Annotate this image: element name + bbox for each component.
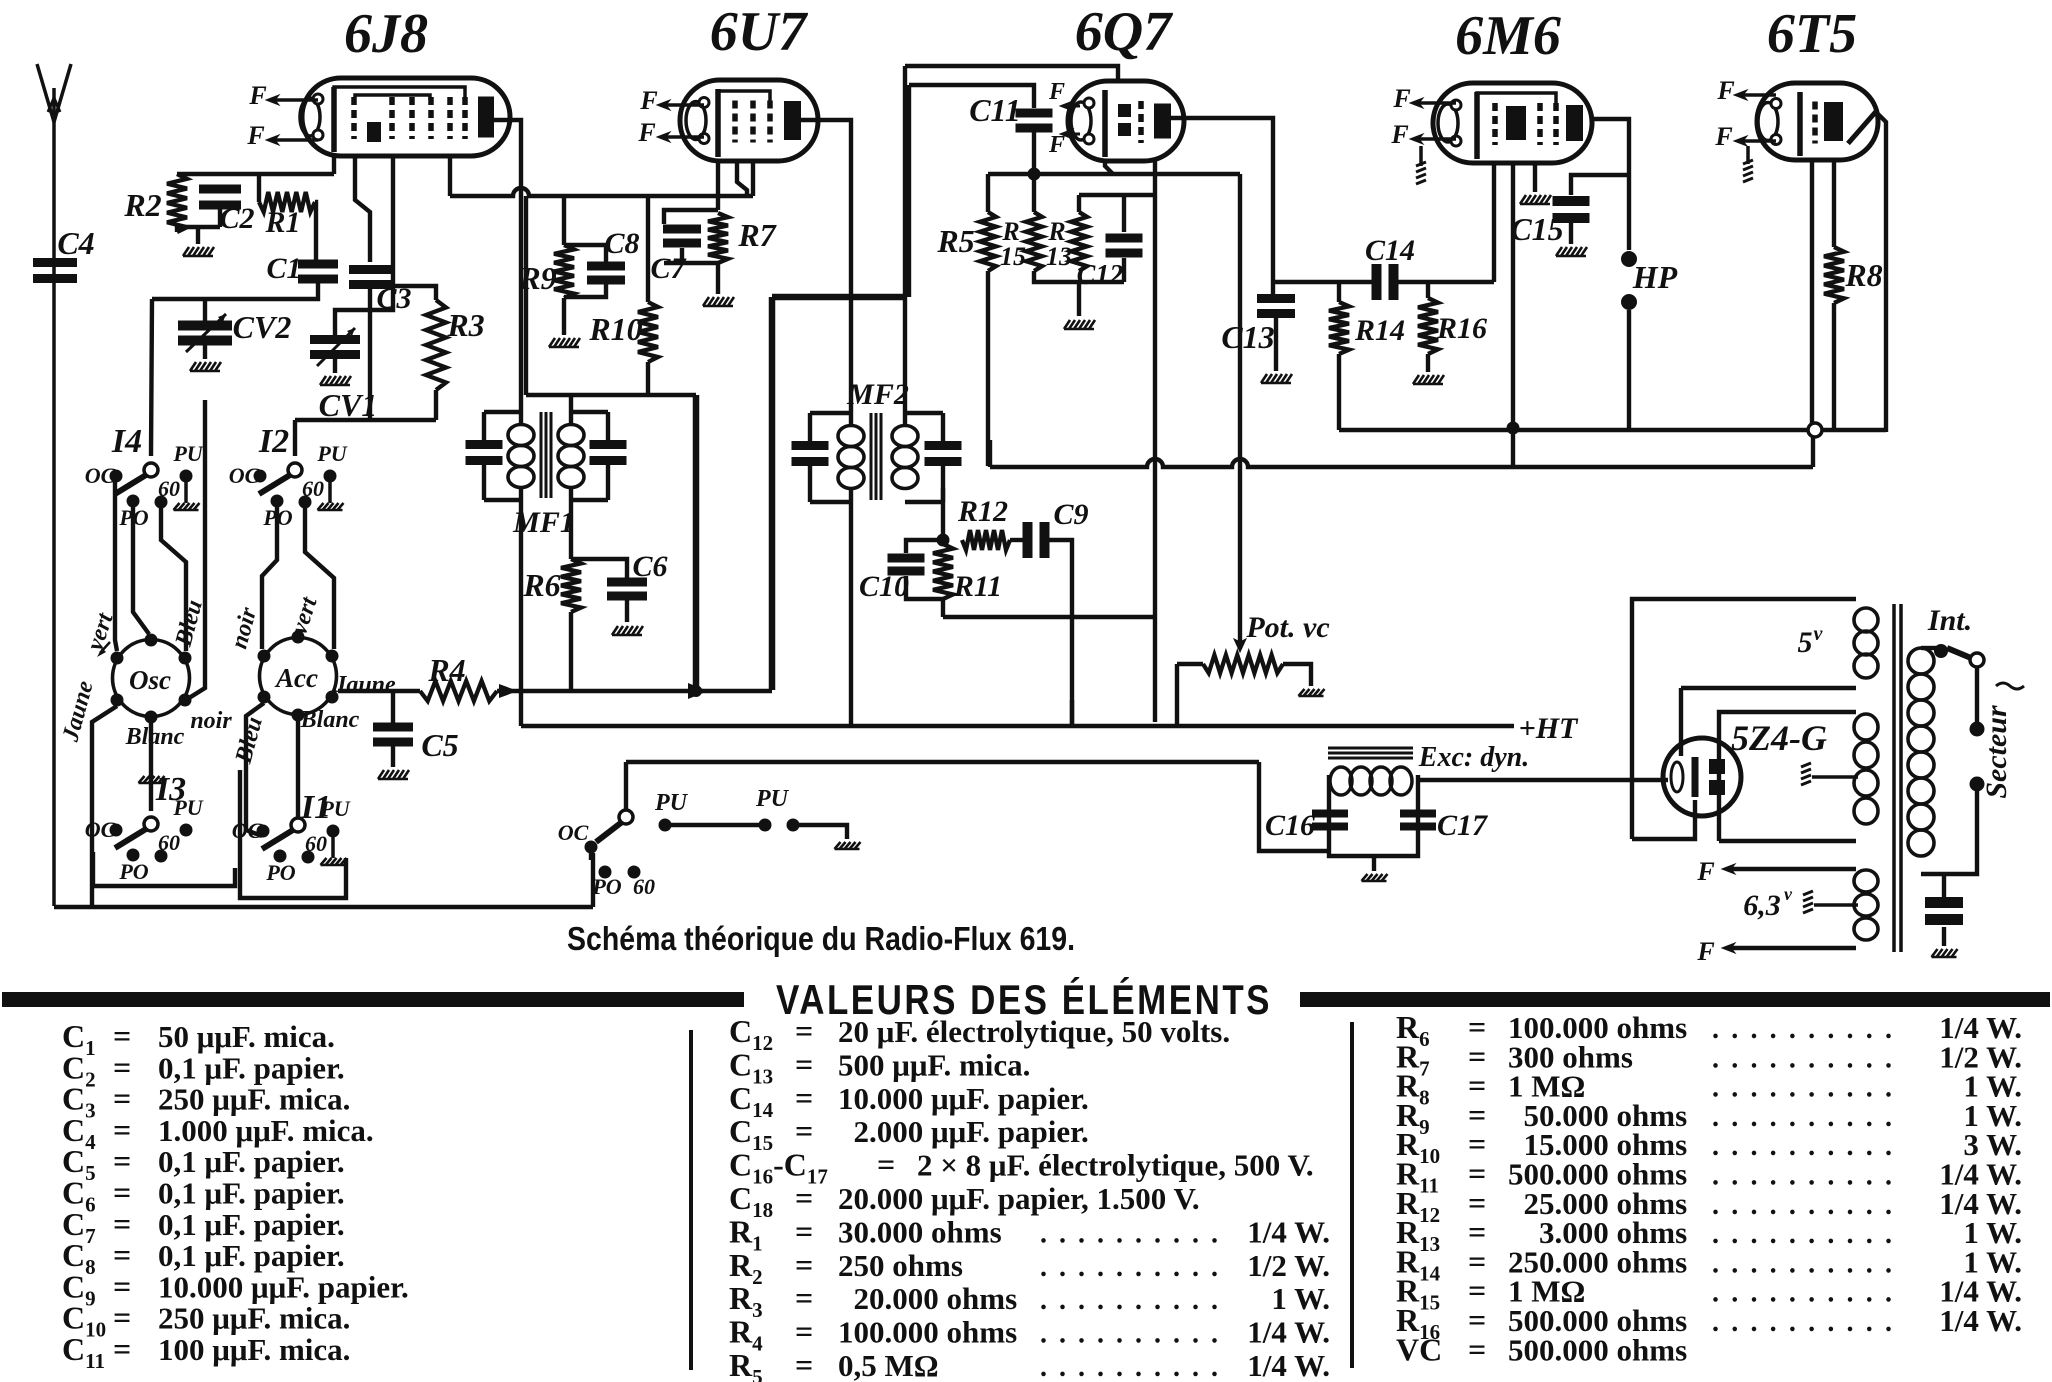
svg-text:6U7: 6U7 [710,1,808,63]
svg-text:0,1 μF. papier.: 0,1 μF. papier. [158,1238,345,1273]
ground below CV1 [320,376,351,385]
speaker terminal HP bottom [1621,294,1637,310]
power transformer 6.3V winding [1696,857,1878,966]
heater arrows 6Q7 [1048,79,1080,158]
svg-text:6M6: 6M6 [1455,5,1561,67]
wire MF1 secondary bottom [569,488,573,559]
svg-text:R6: R6 [522,567,560,603]
wire grid bus right drop [1238,174,1242,648]
table header title [776,976,1272,1023]
svg-text:Blanc: Blanc [125,724,185,750]
wire I1 box [240,770,346,898]
capacitor C4 [33,225,95,283]
wire MF2 secondary bottom [941,488,945,534]
heater arrows 6M6 [1390,84,1456,149]
wire 6Q7 grid bus [988,172,1240,176]
table header bar right [1300,992,2050,1007]
svg-text:F: F [1390,120,1408,149]
svg-text:I3: I3 [155,771,186,808]
ground below R13 [1064,320,1095,329]
svg-text:OC: OC [558,820,589,845]
node bus E junction [1808,423,1822,437]
tube 6U7 [680,80,818,161]
svg-text:PO: PO [118,859,148,884]
wire bus F [990,459,1813,467]
svg-text:Int.: Int. [1927,604,1972,637]
svg-text:=: = [795,1046,813,1082]
wire det output [1273,280,1373,284]
svg-text:2.000 μμF. papier.: 2.000 μμF. papier. [838,1114,1089,1149]
resistor R13 [1046,195,1087,271]
wire pot left drop [1175,664,1179,726]
third PU contact [787,819,800,832]
wire 6J8 screen pin [448,156,452,196]
wire MF1 secondary top [569,395,573,424]
svg-text:5: 5 [1798,626,1813,659]
wire bus G to bus H [519,691,523,726]
switch I4 [85,423,204,530]
wire R1 left [257,174,261,202]
svg-text:10.000 μμF. papier.: 10.000 μμF. papier. [838,1081,1089,1116]
svg-text:v: v [1784,884,1793,904]
node screen bus [1507,422,1520,435]
ground mains [1932,949,1958,957]
svg-text:I1: I1 [300,789,331,826]
wire grid4 6J8 to R2 [332,156,336,174]
IF transformer MF1 [466,412,627,539]
label noir Acc [226,604,262,651]
wire mains cap stem [1942,874,1946,898]
svg-text:=: = [877,1147,895,1183]
variable capacitor CV1 [310,328,377,423]
svg-text:Jaune: Jaune [333,672,396,698]
svg-text:5Z4-G: 5Z4-G [1731,718,1827,758]
switch I1 [232,789,351,885]
wire I3 feed [149,722,153,811]
svg-text:6J8: 6J8 [344,3,428,65]
svg-text:Pot. vc: Pot. vc [1245,611,1329,644]
wire 6U7 grid pin [751,161,755,196]
svg-text:0,1 μF. papier.: 0,1 μF. papier. [158,1144,345,1179]
svg-text:Exc: dyn.: Exc: dyn. [1418,742,1529,773]
svg-text:R11: R11 [953,570,1002,603]
svg-text:1/4 W.: 1/4 W. [1247,1348,1330,1382]
svg-text:F: F [1048,132,1065,158]
resistor R3 [426,300,485,390]
choke Exc dyn laminations [1328,748,1413,758]
svg-text:0,1 μF. papier.: 0,1 μF. papier. [158,1050,345,1085]
ground below C13 [1261,374,1292,383]
wire bus E to bus F [1811,437,1815,467]
capacitor C13 [1221,294,1295,355]
svg-text:R9: R9 [518,260,556,296]
wire grid box [295,418,436,422]
resistor R14 [1329,282,1405,354]
resistor R1 [259,192,315,239]
tube label 6J8 [344,3,428,65]
svg-text:=: = [795,1314,813,1350]
wire MF2 bottom to bus H already [1070,700,1074,726]
svg-text:PU: PU [316,441,347,466]
6.3V center tap ground [1803,891,1858,913]
svg-text:6Q7: 6Q7 [1075,1,1173,63]
ground below R16 [1413,375,1444,384]
resistor R16 [1418,282,1487,354]
label Jaune Acc [333,672,396,698]
wire filter ground stem [1372,856,1376,871]
table header bar left [2,992,744,1007]
svg-text:1/4 W.: 1/4 W. [1247,1214,1330,1249]
capacitor C6 [607,550,668,601]
wire AVC horizontal [772,294,905,301]
heater arrows 6T5 [1714,76,1776,151]
wire I1 feed [296,710,300,818]
svg-text:13: 13 [1046,242,1072,271]
wire 6T5 right side [1878,114,1886,432]
capacitor C18 mains [1925,897,1963,925]
wire R13 R15 bottoms [1034,271,1124,282]
svg-text:I4: I4 [111,423,142,460]
svg-text:=: = [795,1113,813,1149]
title caption [567,920,1075,957]
capacitor C5 [373,691,459,763]
svg-text:15: 15 [1000,242,1026,271]
wire diode plate [1170,118,1273,299]
svg-text:=: = [795,1180,813,1216]
ground below pot [1299,689,1325,696]
label vert Acc [286,593,323,638]
svg-text:R1: R1 [264,206,300,239]
svg-text:F: F [1696,937,1714,966]
switch I3 [85,771,204,884]
resistor R9 [518,196,574,298]
svg-text:Blanc: Blanc [300,707,360,733]
wire R2 C2 bottom [177,227,220,232]
power transformer primary [1908,648,1936,856]
svg-text:=: = [795,1213,813,1249]
svg-text:F: F [1714,122,1732,151]
resistor R2 [123,174,187,232]
svg-text:C9: C9 [1053,498,1088,531]
wire C15 ground stem [1569,221,1573,244]
wire screen feed drop [693,395,700,691]
svg-text:PO: PO [591,874,621,899]
svg-text:=: = [795,1347,813,1382]
variable capacitor CV2 [178,309,291,352]
wire 6U7 cathode pin [716,161,720,210]
wire screen bus B [450,188,753,196]
svg-text:F: F [1048,79,1065,105]
node R4 junction [499,684,518,698]
svg-text:250 ohms: 250 ohms [838,1248,963,1283]
rotary switch Acc [258,631,339,722]
svg-text:+HT: +HT [1519,712,1579,745]
svg-text:F: F [248,81,266,110]
svg-text:I2: I2 [258,423,289,460]
label +HT [1519,712,1579,745]
svg-text:100.000 ohms: 100.000 ohms [838,1315,1017,1350]
wire C9 loop drop [1070,617,1074,726]
svg-text:R14: R14 [1354,314,1405,347]
table divider 1 [689,1030,693,1370]
wire 6Q7 top grid entry [905,66,1118,81]
svg-text:C7: C7 [650,252,686,285]
svg-text:500.000 ohms: 500.000 ohms [1508,1332,1687,1367]
wire 6J8 anode [494,120,521,424]
capacitor C8 [564,227,640,297]
wire R6 bottom [569,612,573,690]
capacitor C12 [1077,195,1143,291]
wire 6M6 grid pin [1492,163,1496,282]
svg-text:C5: C5 [421,727,458,763]
wire C1 node to I4 [151,299,152,456]
resistor R8 [1824,160,1883,432]
svg-text:20 μF. électrolytique, 50 volt: 20 μF. électrolytique, 50 volts. [838,1014,1230,1049]
capacitor C16 [1265,809,1348,842]
svg-text:0,5 MΩ: 0,5 MΩ [838,1348,939,1382]
choke Exc dyn coil [1330,742,1529,795]
resistor R15 [1000,174,1042,271]
resistor R11 [933,544,1002,617]
wire bus F left riser [988,440,992,467]
svg-text:OC: OC [85,463,116,488]
svg-text:C12: C12 [1077,260,1124,291]
label noir Osc [190,708,232,734]
label Blanc Osc [125,724,185,750]
svg-text:1 W.: 1 W. [1271,1281,1330,1316]
wire C1 bottom [152,281,318,299]
svg-text:VC: VC [1396,1331,1442,1367]
wire MF1 primary bottom [519,488,523,692]
wire Acc Jaune out [338,689,420,693]
svg-text:PU: PU [654,790,689,816]
svg-text:R8: R8 [1844,257,1882,293]
wire choke to rectifier [1418,778,1668,782]
wire exc feed [1259,762,1329,851]
wire R3 bottom [434,390,438,420]
heater arrows 6U7 [637,86,704,147]
node pot arrow [1234,639,1246,652]
svg-text:500 μμF. mica.: 500 μμF. mica. [838,1047,1030,1082]
wire Acc noir drop [246,703,264,836]
wire Osc jaune down [92,706,117,907]
svg-text:F: F [639,86,657,115]
wire 6J8 grid2 pin [335,156,393,337]
values table column 3 [1396,1009,2022,1367]
tube label 6T5 [1767,3,1857,65]
tube 6M6 [1433,83,1592,163]
wire PU jumper [671,823,759,827]
wire bus G [497,689,772,693]
label Jaune wire [0,0,1,1]
wire C11 feed drop [907,85,911,297]
svg-text:MF2: MF2 [846,378,909,411]
wire bias ground stem [1077,282,1081,316]
svg-text:C11: C11 [969,92,1021,128]
wire I4 60 to Osc [161,508,186,651]
wire triode plate node [1079,193,1155,197]
wire 6U7 pin 3 [737,161,747,196]
wire C13 ground stem [1274,318,1278,371]
wire R16 ground stem [1426,354,1430,372]
ground 6M6 cathode [1520,195,1551,204]
potentiometer Pot vc [1177,611,1330,686]
wire C9 right [1047,540,1072,617]
wire R11 C9 bottom [943,615,1156,619]
wire 6M6 anode [1592,119,1629,250]
svg-text:=: = [795,1247,813,1283]
svg-text:R7: R7 [737,217,777,253]
wire mains lower [1921,791,1977,874]
switch Int [1927,604,1984,667]
svg-text:R3: R3 [446,307,484,343]
wire R6 to C6 [571,559,627,580]
svg-text:250 μμF. mica.: 250 μμF. mica. [158,1301,350,1336]
wire R1 to C1 [315,202,316,261]
resistor R10 [588,196,658,395]
svg-text:Osc: Osc [129,665,171,695]
wire 6U7 anode [801,120,851,424]
wire C15 feed [1571,175,1629,195]
capacitor C9 [1023,498,1089,558]
label Secteur [1980,683,2024,799]
svg-text:C2: C2 [219,202,254,235]
tube 6Q7 [1068,81,1184,161]
label Jaune Osc [57,678,98,745]
wire MF2 secondary top [903,66,907,424]
svg-text:Schéma théorique du Radio-Flu: Schéma théorique du Radio-Flux 619. [567,920,1075,957]
switch OC-PO-60-PU bottom [558,786,790,899]
tube 6J8 [300,78,510,156]
svg-text:250 μμF. mica.: 250 μμF. mica. [158,1082,350,1117]
wire 6Q7 cathode pin [1105,159,1113,174]
resistor R4 [420,652,497,701]
switch I2 [229,423,348,530]
ground below CV2 [190,362,221,371]
rectifier 5Z4-G [1663,718,1827,816]
label HP [1632,259,1678,295]
node grid bus [1028,168,1041,181]
wire Bleu drop [189,400,205,698]
capacitor C15 [1510,196,1589,247]
svg-text:100 μμF. mica.: 100 μμF. mica. [158,1332,350,1367]
ground below R9 [549,338,580,347]
wire PU to ground [799,825,847,839]
svg-text:C10: C10 [859,570,909,603]
svg-text:Acc: Acc [274,663,318,693]
transformer core [1894,604,1901,952]
wire bus E [1339,428,1886,432]
svg-text:C17: C17 [1437,809,1488,842]
svg-text:R16: R16 [1436,312,1487,345]
svg-text:PU: PU [172,441,203,466]
wire antenna bottom bus [54,905,593,909]
label vert Osc [82,609,119,657]
ground below C5 [378,770,409,779]
svg-text:R4: R4 [427,652,465,688]
svg-text:C6: C6 [632,550,667,583]
svg-text:30.000 ohms: 30.000 ohms [838,1214,1002,1249]
svg-text:HP: HP [1632,259,1678,295]
capacitor C7 [650,210,718,285]
svg-text:F: F [1392,84,1410,113]
svg-text:60: 60 [305,831,327,856]
capacitor C3 [349,265,412,315]
svg-text:1/4 W.: 1/4 W. [1939,1303,2022,1338]
wire bus PU [626,760,1259,764]
svg-text:60: 60 [158,830,180,855]
ground below filter [1362,874,1388,881]
svg-text:1/4 W.: 1/4 W. [1247,1315,1330,1350]
svg-text:F: F [246,121,264,150]
svg-text:R2: R2 [123,187,161,223]
capacitor C17 [1400,809,1488,842]
svg-text:=: = [113,1331,131,1367]
capacitor C1 [266,252,338,285]
svg-text:noir: noir [190,708,232,734]
svg-text:6,3: 6,3 [1743,889,1781,922]
wire 6J8 cathode pin [355,156,370,262]
svg-text:C15: C15 [1510,211,1563,247]
tube 6T5 [1757,83,1878,160]
label Bleu Osc [170,597,207,650]
svg-text:60: 60 [158,476,180,501]
svg-text:OC: OC [85,817,116,842]
wire bus PU drop [624,762,628,816]
svg-text:1.000 μμF. mica.: 1.000 μμF. mica. [158,1113,374,1148]
heater arrows 6J8 [246,81,318,150]
6J8 inner wire [355,95,430,100]
ground below R7 [703,297,734,306]
svg-text:2 × 8 μF. électrolytique, 500: 2 × 8 μF. électrolytique, 500 V. [917,1148,1314,1183]
mains terminal lower [1970,777,1985,792]
wire 6Q7 plate drop [1153,159,1157,722]
svg-text:CV2: CV2 [233,309,292,345]
svg-text:1/2 W.: 1/2 W. [1247,1248,1330,1283]
wire I2 pivot up [293,420,297,456]
ground below C15 [1556,247,1587,256]
wire MF2 primary bottom [849,488,853,726]
svg-text:0,1 μF. papier.: 0,1 μF. papier. [158,1176,345,1211]
mains terminal upper [1970,722,1985,737]
svg-text:CV1: CV1 [319,387,378,423]
svg-text:PO: PO [265,860,295,885]
wire bus H HT [521,724,1514,728]
filter box [1329,775,1418,856]
speaker terminal HP top [1621,251,1637,267]
capacitor C11 [969,92,1052,133]
tube label 6Q7 [1075,1,1173,63]
HT center tap ground [1801,763,1858,785]
wire OC drop [589,853,593,860]
wire C3 to R3 [391,286,436,300]
svg-text:R10: R10 [588,311,642,347]
node primary top [1934,644,1948,658]
node screen feed [688,683,708,699]
wire bottom bus riser [591,853,595,907]
svg-text:v: v [1814,623,1824,645]
svg-text:Secteur: Secteur [1980,705,2013,799]
values table column 2 [729,1013,1330,1382]
wire I4 OC to Osc [115,482,117,651]
svg-text:C13: C13 [1221,319,1274,355]
svg-text:C8: C8 [604,227,639,260]
svg-text:C14: C14 [1365,234,1415,267]
wire Int drop [1975,667,1979,722]
wire HP bottom drop [1627,310,1631,428]
svg-text:=: = [795,1280,813,1316]
svg-text:10.000 μμF. papier.: 10.000 μμF. papier. [158,1269,409,1304]
